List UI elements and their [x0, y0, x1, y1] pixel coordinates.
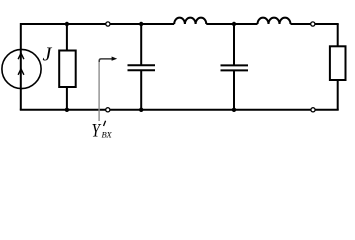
terminal: input top	[106, 22, 110, 26]
terminal: output bottom	[311, 108, 315, 112]
wire: bottom rail	[20, 109, 339, 111]
wire: top rail segment between L1 and L2	[206, 23, 257, 25]
capacitor C1	[128, 24, 156, 110]
junction: C1 top node	[139, 22, 143, 26]
junction: C1 bottom node	[139, 108, 143, 112]
svg-text:J: J	[43, 44, 53, 66]
junction: R1 bottom node	[65, 108, 69, 112]
resistor R1	[59, 24, 75, 110]
junction: R1 top node	[65, 22, 69, 26]
capacitor C2	[221, 24, 249, 110]
svg-text:ВХ: ВХ	[102, 130, 113, 140]
terminal: output top	[311, 22, 315, 26]
inductor L2	[258, 18, 291, 24]
resistor R2	[330, 24, 346, 110]
label Y'вх	[92, 120, 113, 141]
current source J	[2, 49, 41, 88]
wire: top rail left segment (source corner to L1)	[21, 24, 174, 110]
wire: top rail right segment (L2 to R2 corner)	[291, 23, 339, 25]
arrow: Y'вх input admittance pointer	[99, 57, 117, 122]
junction: C2 bottom node	[232, 108, 236, 112]
inductor L1	[174, 18, 206, 24]
terminal: input bottom	[106, 108, 110, 112]
junction: C2 top node	[232, 22, 236, 26]
